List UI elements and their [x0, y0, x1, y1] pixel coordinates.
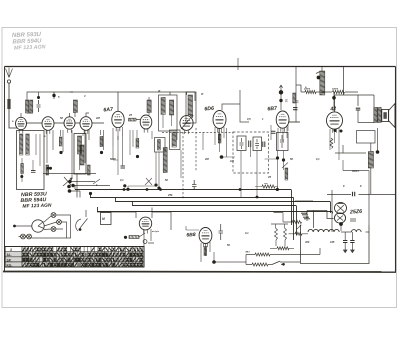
tube U3 6B7 — [276, 111, 289, 132]
inductor L4 — [147, 100, 151, 113]
wire T1 leads — [163, 115, 172, 129]
node d8 — [220, 155, 224, 159]
svg-text:30000: 30000 — [332, 89, 339, 91]
switch wave arm2 — [93, 179, 100, 184]
wire 6B7 pins — [278, 127, 287, 150]
dashed gang link1 — [182, 128, 184, 200]
resistor R24 leadin — [295, 232, 302, 235]
inductor L7 — [20, 134, 23, 155]
speaker magnet — [383, 112, 386, 119]
node feed dot — [13, 225, 16, 228]
svg-text:25Z6: 25Z6 — [349, 209, 362, 216]
node d7 — [157, 186, 160, 189]
tube V1 RF section — [16, 117, 27, 133]
speaker cone — [389, 104, 395, 128]
node d6 — [154, 183, 157, 186]
node rect cathode — [339, 222, 343, 226]
wire left border — [4, 67, 6, 272]
tube U5 25Z6 upper — [335, 202, 347, 213]
capacitor C13 plates — [263, 142, 265, 148]
capacitor C5 filter — [343, 241, 347, 243]
wire heater joins — [341, 231, 369, 233]
svg-text:M: M — [102, 217, 105, 221]
svg-text:MF 123 AGN: MF 123 AGN — [22, 203, 52, 210]
wire scallop leadin — [289, 233, 309, 235]
dashed gang link2 — [195, 128, 197, 172]
svg-text:IF: IF — [158, 89, 161, 93]
resistor R26 row — [277, 247, 289, 250]
wire field coil net — [335, 128, 378, 194]
wire antenna lead — [8, 83, 10, 99]
wire relay loop — [295, 201, 334, 228]
wire right border — [395, 67, 397, 272]
node d4 — [123, 184, 126, 187]
svg-text:a: a — [44, 135, 46, 138]
inductor L12 inside — [172, 133, 176, 148]
resistor R11 — [21, 164, 24, 174]
wire 6B7 grid cap lead — [279, 85, 282, 110]
transformer T2 box — [186, 92, 196, 123]
svg-text:at-kyle: at-kyle — [152, 230, 160, 233]
resistor R5 heater string — [308, 229, 339, 232]
wire 6D6 pins — [215, 127, 224, 145]
svg-text:2M: 2M — [204, 157, 209, 161]
node pilot dot — [282, 263, 285, 266]
svg-text:6A7: 6A7 — [103, 107, 114, 114]
node dotB — [71, 184, 74, 187]
resistor R19 — [285, 168, 288, 180]
node 42 pin dots — [334, 129, 343, 133]
box cap1 — [237, 136, 246, 151]
switch S1 contact d — [21, 234, 26, 239]
wire 42 plate to OT — [335, 67, 375, 113]
inductor T1 primary — [161, 98, 165, 115]
wire grid row links — [27, 122, 105, 124]
capacitor C15 — [271, 131, 275, 133]
svg-text:2M: 2M — [95, 116, 100, 120]
wire 6D6 plate — [222, 90, 249, 122]
node dotA — [68, 180, 71, 183]
node d10 — [282, 158, 285, 161]
svg-text:165: 165 — [330, 240, 335, 244]
resistor R28 6B8 load — [204, 247, 207, 256]
ground cap1 — [343, 250, 347, 253]
resistor R12 — [59, 137, 62, 146]
node antenna terminal — [7, 80, 10, 83]
node s1b dot — [79, 228, 82, 231]
resistor R1 osc grid — [129, 118, 137, 121]
svg-text:25: 25 — [267, 175, 271, 179]
svg-text:IF: IF — [201, 92, 204, 96]
node d5 — [126, 188, 129, 191]
resistor R9 pilot — [255, 253, 270, 256]
wire choke top — [316, 66, 322, 74]
svg-text:25: 25 — [128, 113, 132, 117]
tube V8 AF triode — [139, 217, 151, 233]
inductor L11 volume — [163, 148, 167, 173]
node field dot — [376, 150, 380, 154]
node padder dots — [67, 185, 71, 193]
ground cap2 — [351, 250, 355, 253]
node dot2 — [279, 99, 282, 102]
node junction2 — [52, 92, 55, 99]
svg-text:300: 300 — [305, 240, 310, 244]
resistor R14 — [88, 165, 91, 175]
svg-text:50: 50 — [290, 157, 293, 161]
tube U6 6B8 — [199, 228, 212, 248]
svg-text:50: 50 — [227, 243, 230, 247]
potentiometer wiper — [139, 233, 147, 243]
node d2 — [100, 151, 103, 154]
resistor R6 heater string — [352, 230, 362, 232]
osc box outline — [74, 134, 86, 175]
capacitor C3 coupling — [353, 192, 355, 197]
switch S3 mains — [272, 261, 283, 264]
svg-text:AL.: AL. — [7, 253, 12, 257]
resistor R22 small — [302, 213, 308, 216]
svg-text:1: 1 — [262, 117, 264, 121]
wire top supply bus — [5, 66, 396, 68]
dashed box AF — [233, 132, 269, 173]
svg-text:8: 8 — [343, 184, 345, 188]
inductor L9 padder coil — [80, 145, 84, 165]
inductor T2 primary — [188, 95, 193, 115]
wire 6B7 out — [289, 66, 301, 122]
node bus dots — [123, 188, 279, 198]
node junction — [37, 96, 40, 99]
svg-text:6B8: 6B8 — [186, 232, 196, 238]
inductor L3 osc coil top — [73, 100, 77, 113]
node dotC — [47, 167, 93, 195]
resistor R16 — [136, 139, 139, 149]
wire antenna to coil — [9, 109, 17, 128]
node screen junction — [332, 96, 336, 100]
inductor L1 antenna coil — [26, 100, 29, 113]
wire 6B8 top net — [97, 208, 171, 231]
svg-text:k: k — [96, 183, 98, 187]
dashed gang link0 — [162, 132, 233, 134]
wire bus 5 — [97, 207, 333, 214]
wire bus tails — [70, 182, 110, 190]
switch arrow ps — [297, 225, 301, 229]
wire to V6 — [136, 119, 140, 121]
labels component values — [12, 86, 362, 247]
wire tone cap — [358, 110, 374, 123]
wire mid right — [343, 160, 369, 194]
wire plate bus 6A7 — [70, 92, 195, 111]
box cap2 — [253, 137, 262, 151]
svg-text:0,1: 0,1 — [316, 157, 320, 161]
switch S1b arc — [76, 210, 88, 231]
switch S1 contact e — [27, 234, 32, 239]
svg-text:5000: 5000 — [110, 157, 116, 161]
power box outline — [301, 225, 370, 264]
tube U1 6A7 — [112, 111, 124, 131]
inductor L5 RF choke — [320, 71, 325, 95]
svg-text:0,1: 0,1 — [120, 178, 124, 182]
resistor R25 vert — [275, 228, 287, 240]
tube V3 section — [64, 117, 75, 133]
switch wave arm1 — [63, 177, 72, 186]
resistor R15 — [100, 137, 103, 147]
capacitor C12 plates — [249, 141, 251, 148]
inductor T1 secondary — [170, 100, 174, 115]
capacitor C10 inside — [240, 138, 244, 149]
wire 6A7 cathode pins — [113, 127, 123, 146]
wire switch feed — [15, 225, 33, 227]
wire bus 3 — [115, 198, 331, 214]
antenna — [6, 68, 13, 78]
node box dot — [20, 175, 23, 178]
transformer T3 OT secondary — [378, 108, 381, 123]
wire vcluster1 — [47, 130, 104, 179]
resistor R21 volume — [129, 236, 139, 239]
box cap3 — [277, 133, 289, 151]
svg-text:6D6: 6D6 — [204, 106, 214, 113]
wire r27 link — [274, 213, 292, 223]
node d11 — [276, 188, 279, 191]
wire pilot feed — [245, 255, 247, 265]
resistor R29 42 bias — [330, 138, 333, 148]
switch S1 contact b — [57, 220, 62, 225]
resistor R2 vertical — [293, 93, 296, 103]
capacitor C16 — [219, 224, 224, 240]
svg-text:1M: 1M — [230, 159, 234, 163]
wire coil top link — [21, 92, 73, 118]
inductor L6 field coil — [368, 152, 373, 169]
svg-text:0,5: 0,5 — [247, 117, 251, 121]
wire stub above bus — [237, 58, 239, 70]
speaker frame — [382, 110, 389, 122]
wire riser77 — [76, 174, 78, 198]
resistor R10 — [252, 263, 268, 266]
tube U4 42 output — [327, 112, 343, 133]
capacitor C8 — [121, 166, 126, 168]
capacitor C4 small — [350, 219, 356, 221]
node d3 — [136, 155, 139, 158]
svg-text:KG.: KG. — [7, 263, 13, 267]
box detector — [155, 138, 166, 153]
capacitor C6 filter — [350, 241, 354, 243]
svg-text:6B7: 6B7 — [267, 106, 278, 113]
node choke top — [317, 76, 321, 80]
svg-text:λ: λ — [9, 248, 12, 252]
wire box wires — [22, 134, 40, 182]
transformer T1 box — [159, 95, 178, 131]
wire 6B8 grid — [186, 226, 199, 230]
tuner box outline — [17, 131, 45, 190]
wire screen feed — [301, 85, 358, 111]
tube U2 6D6 — [213, 111, 226, 133]
svg-text:a: a — [12, 120, 14, 123]
switch arm det — [145, 178, 152, 185]
svg-text:5: 5 — [58, 95, 60, 99]
svg-text:50: 50 — [60, 116, 63, 120]
svg-text:8: 8 — [360, 184, 362, 188]
wire r25 wires — [271, 224, 288, 246]
capacitor C9 trimmer — [192, 180, 197, 190]
resistor R4 — [333, 90, 345, 93]
wire rect leads — [332, 190, 369, 232]
capacitor C7 — [31, 171, 36, 173]
wire bus 4 — [132, 202, 297, 236]
svg-text:MET: MET — [246, 252, 251, 254]
svg-text:SP.: SP. — [7, 258, 12, 262]
switch S1 contact c — [51, 227, 56, 232]
wire r26 tails — [270, 247, 294, 249]
wire pilot2 — [246, 262, 300, 265]
resistor R18 — [218, 134, 221, 143]
resistor R17 inside — [158, 140, 161, 151]
node d12 — [212, 260, 216, 264]
wire V8 pins down — [144, 229, 154, 246]
capacitor C17 plate — [293, 108, 298, 110]
switch S1 rotor — [32, 220, 44, 232]
wire bottom chassis line — [3, 271, 396, 274]
wire V7 arrow — [181, 115, 193, 129]
svg-text:0,1: 0,1 — [285, 99, 288, 103]
svg-text:3: 3 — [84, 94, 86, 98]
tube U5 25Z6 lower — [334, 213, 345, 223]
capacitor C2 tone — [356, 108, 361, 110]
wire switch loop — [19, 215, 71, 238]
node grid cap dot — [279, 90, 283, 94]
wire 42 pins — [330, 128, 339, 160]
transformer T3 OT primary — [374, 108, 377, 123]
box M — [101, 213, 112, 225]
wire padder link — [70, 191, 81, 198]
tube V4 section — [80, 117, 92, 134]
inductor L10 — [78, 136, 82, 154]
wire osc link — [70, 113, 90, 118]
tube V6 osc triode — [140, 115, 152, 133]
switch S1 contact a — [51, 213, 56, 218]
wire pilot1 — [246, 248, 320, 255]
tube V7 det triode — [180, 116, 193, 134]
inductor L8 — [26, 134, 29, 155]
svg-text:MF 123 AGN: MF 123 AGN — [14, 44, 46, 51]
resistor R13 — [46, 165, 49, 175]
wire bus 2 — [90, 193, 294, 240]
resistor R20 500 — [262, 185, 275, 188]
resistor R23 small — [304, 217, 310, 220]
inductor L2 — [30, 100, 33, 113]
wire filter drops — [345, 232, 352, 250]
wire osc box leads — [80, 134, 84, 171]
wire mid verts — [113, 130, 181, 186]
wire 6B8 pins — [201, 242, 246, 262]
switch arm m2 — [282, 163, 288, 169]
tube V2 section — [42, 117, 54, 134]
table wave-band chart — [5, 247, 144, 268]
transformer box hum coil — [357, 131, 376, 144]
wire B+ line — [327, 194, 396, 196]
wire link173 — [43, 173, 96, 175]
capacitor C11 inside — [255, 139, 259, 149]
resistor R27 mid — [292, 221, 302, 224]
node d1 — [59, 151, 62, 154]
wire m2 links — [222, 122, 300, 159]
wire m2 verts — [203, 125, 288, 197]
node d9 — [276, 156, 279, 159]
capacitor C1 trimmer — [37, 100, 41, 112]
svg-text:0,1: 0,1 — [245, 231, 249, 235]
svg-text:50: 50 — [165, 178, 168, 182]
resistor R3 — [305, 90, 316, 93]
box coupling — [170, 130, 181, 150]
wire AVC bus 1 — [75, 190, 292, 226]
wire m2 tail — [255, 187, 278, 190]
node vol dot — [124, 236, 127, 239]
wire mid links — [113, 160, 156, 190]
resistor antenna series — [7, 99, 10, 109]
capacitor C14 inside — [280, 135, 284, 148]
svg-text:250: 250 — [167, 193, 173, 197]
wire L4 leads — [148, 97, 150, 115]
